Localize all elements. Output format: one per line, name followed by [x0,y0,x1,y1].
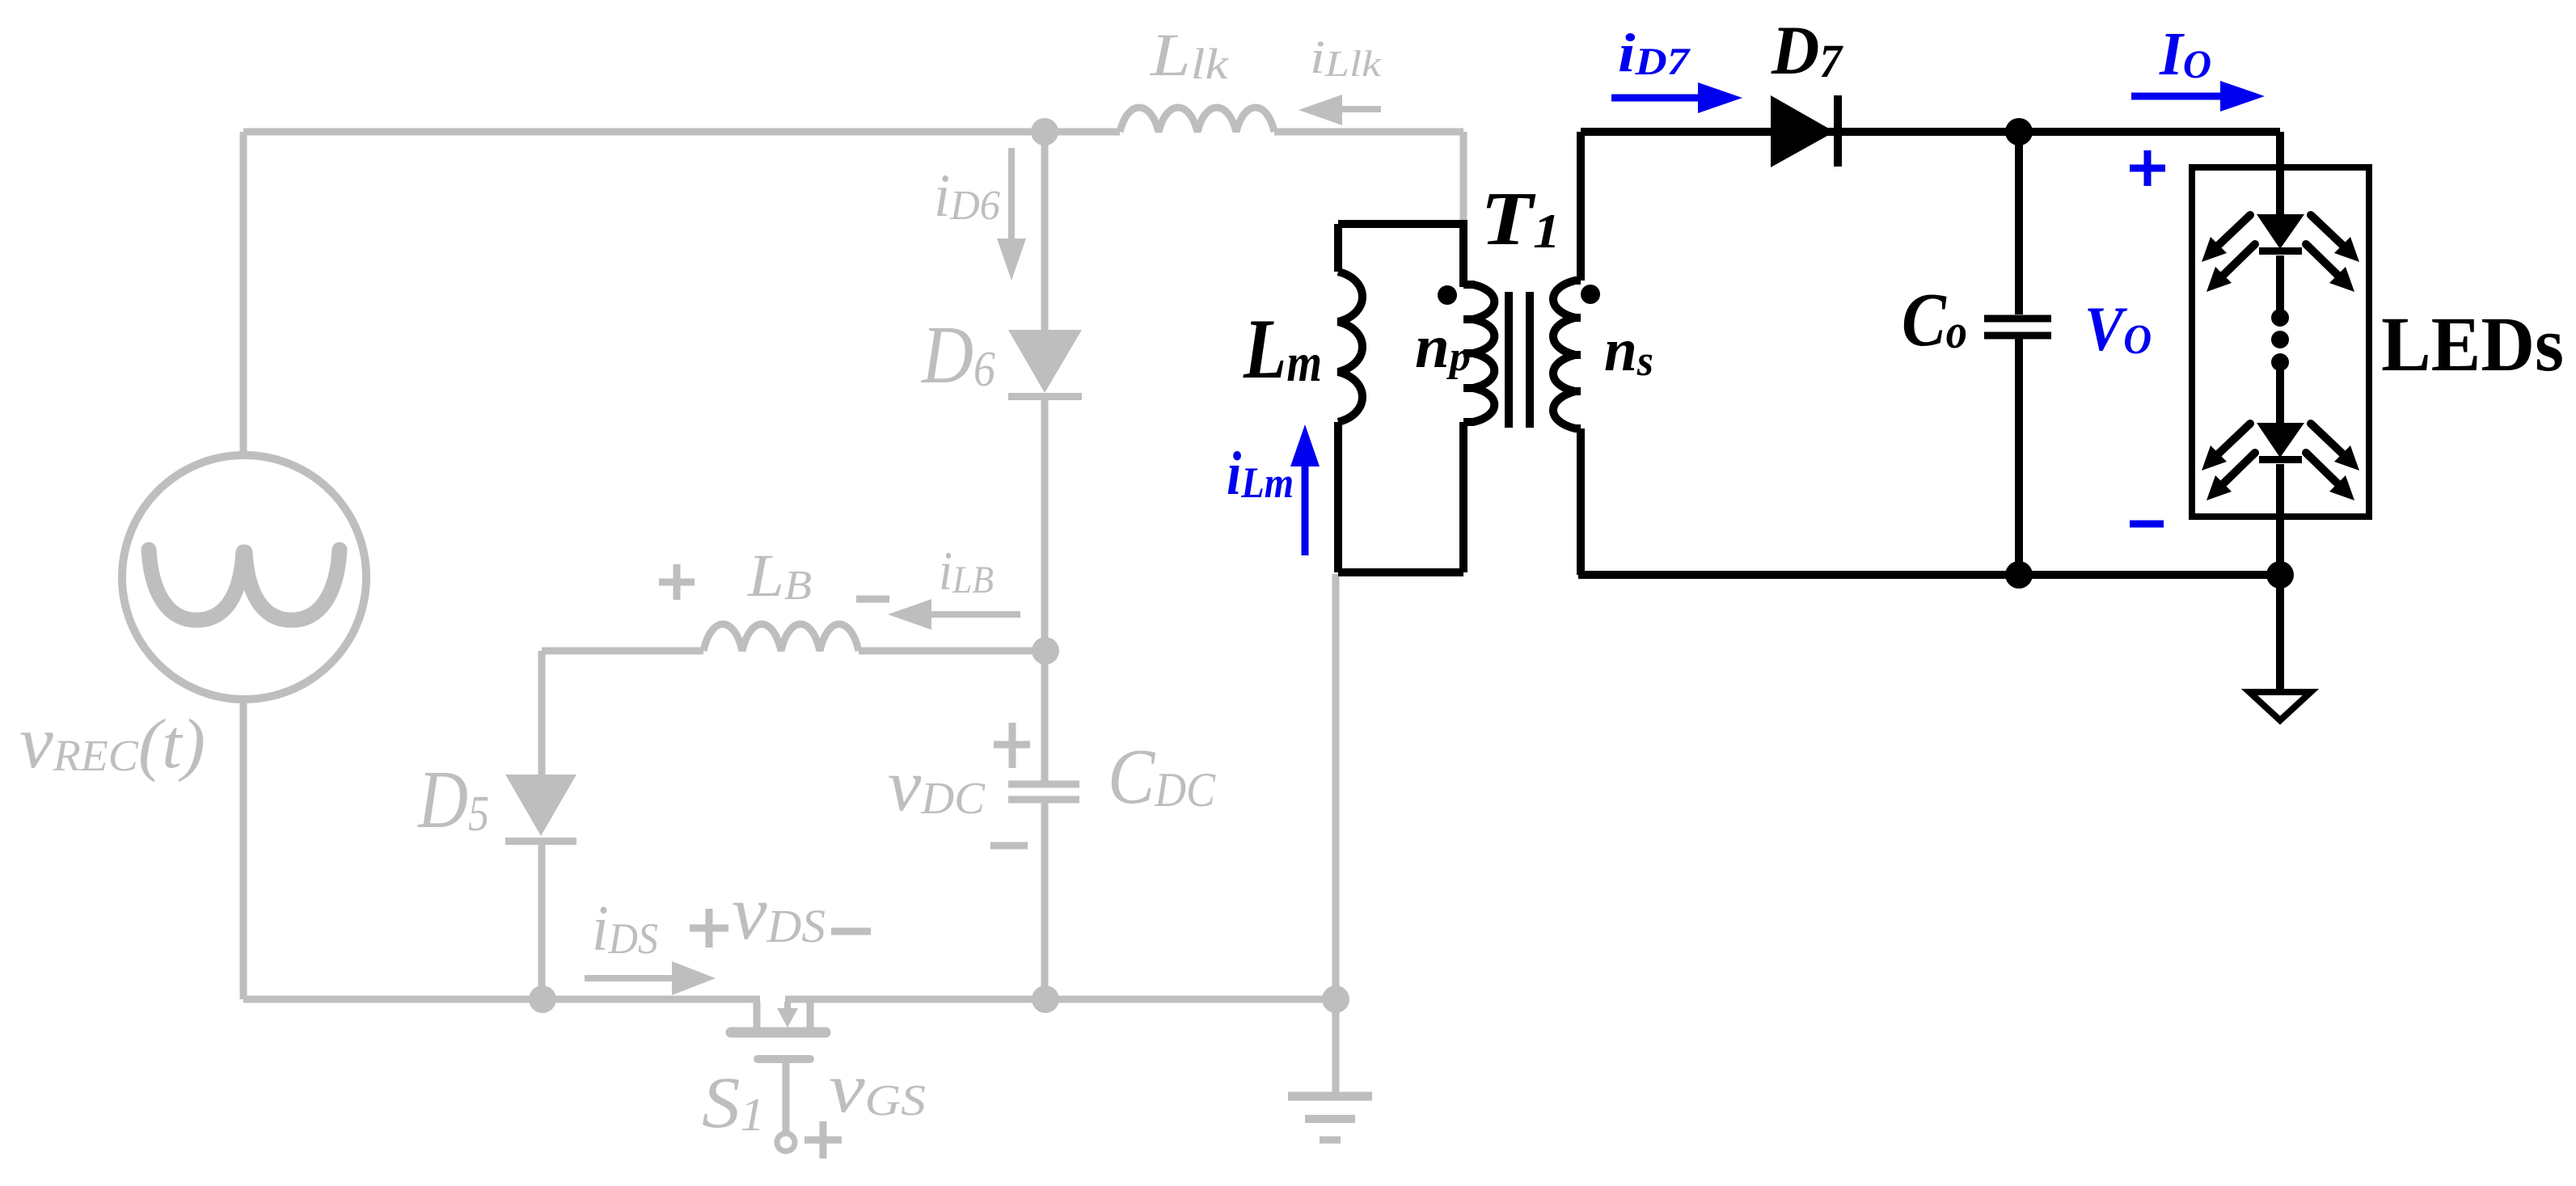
svg-text:LB: LB [747,542,812,610]
svg-text:vREC(t): vREC(t) [19,701,205,784]
svg-text:LEDs: LEDs [2381,301,2564,387]
svg-text:S1: S1 [702,1063,765,1143]
svg-text:iLB: iLB [939,540,994,601]
svg-text:iD7: iD7 [1618,22,1691,83]
svg-text:ns: ns [1604,316,1653,385]
svg-text:iLm: iLm [1227,440,1294,508]
svg-text:D5: D5 [416,754,489,846]
svg-text:D7: D7 [1771,11,1843,89]
svg-text:CDC: CDC [1108,733,1216,820]
svg-text:Llk: Llk [1150,22,1229,89]
svg-text:vDS: vDS [732,869,826,956]
svg-text:iDS: iDS [592,893,658,964]
svg-text:vGS: vGS [829,1049,926,1128]
svg-text:np: np [1415,313,1471,381]
svg-text:iD6: iD6 [934,162,1000,230]
svg-text:iLlk: iLlk [1310,31,1383,84]
svg-text:IO: IO [2159,20,2211,88]
svg-text:Co: Co [1902,278,1967,362]
svg-text:VO: VO [2084,293,2152,364]
svg-text:Lm: Lm [1243,302,1322,396]
svg-text:T1: T1 [1480,177,1560,261]
svg-text:D6: D6 [920,310,995,401]
svg-text:vDC: vDC [888,744,986,826]
